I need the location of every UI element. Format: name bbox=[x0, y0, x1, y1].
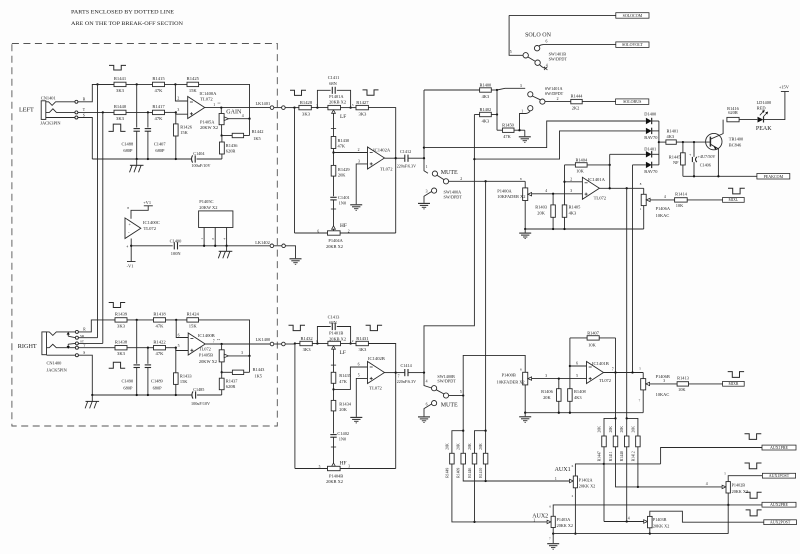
wire row1 R1415 to R1425 bbox=[165, 83, 188, 85]
resistor R1444 bbox=[571, 99, 582, 103]
svg-text:C1414: C1414 bbox=[401, 363, 413, 368]
node AUX2 R1446 bbox=[473, 521, 475, 523]
wire P1406B bottom bbox=[642, 390, 644, 413]
svg-text:CN1401: CN1401 bbox=[41, 96, 56, 101]
svg-text:20KW X2: 20KW X2 bbox=[199, 359, 217, 364]
wire R1427 to EQ right edge bbox=[368, 108, 395, 159]
svg-text:R1430: R1430 bbox=[338, 138, 351, 143]
svg-text:4: 4 bbox=[545, 189, 547, 193]
svg-text:20K: 20K bbox=[537, 211, 545, 216]
svg-text:R: R bbox=[83, 97, 86, 101]
wire mute-B to fader top bbox=[463, 355, 525, 395]
wire L jack S to ground rail bbox=[78, 118, 92, 160]
svg-text:3: 3 bbox=[663, 379, 665, 383]
resistor R1417 bbox=[153, 110, 165, 114]
svg-text:AUX1POST: AUX1POST bbox=[769, 473, 790, 478]
wire mute-A vertical bbox=[423, 90, 425, 158]
wire R pre-fader feed to aux bbox=[462, 396, 464, 431]
svg-text:GAIN: GAIN bbox=[226, 109, 242, 115]
capacitor C1404 polarized bbox=[192, 155, 193, 162]
svg-text:PEAKCOM: PEAKCOM bbox=[764, 174, 784, 179]
op-amp IC1400B bbox=[188, 333, 205, 355]
pot P1404A HF wiper arrow bbox=[332, 226, 336, 229]
resistor R1436 bbox=[221, 136, 223, 143]
svg-text:PEAK: PEAK bbox=[756, 126, 772, 132]
wire pin2 to IC1401A bbox=[565, 181, 583, 183]
flag PEAKCOM bbox=[757, 174, 790, 180]
resistor R1440 bbox=[114, 110, 126, 114]
svg-text:R1407: R1407 bbox=[587, 330, 600, 335]
aux stub row post pair2 bbox=[627, 418, 638, 436]
node pin2 tap bbox=[174, 83, 176, 85]
node pin2 bbox=[332, 151, 334, 153]
svg-text:47K: 47K bbox=[155, 88, 164, 93]
resistor R1439 bbox=[115, 318, 127, 322]
svg-text:P1405A: P1405A bbox=[200, 119, 215, 124]
svg-text:20K: 20K bbox=[620, 426, 624, 433]
resistor R1442 bbox=[222, 135, 233, 137]
svg-text:3K3: 3K3 bbox=[303, 347, 312, 352]
svg-text:20KW X2: 20KW X2 bbox=[199, 205, 217, 210]
op-amp IC1402B bbox=[368, 362, 385, 384]
svg-text:3: 3 bbox=[348, 465, 350, 469]
capacitor C1406 polarized bbox=[693, 142, 695, 157]
node ground row P1403B bbox=[649, 532, 651, 534]
svg-text:6: 6 bbox=[546, 40, 548, 44]
svg-text:20KB X2: 20KB X2 bbox=[329, 100, 346, 105]
svg-text:R1431: R1431 bbox=[356, 336, 369, 341]
pot P1405B bbox=[221, 344, 223, 350]
pot block P1405C bbox=[199, 211, 233, 228]
pot P1404B HF wiper arrow bbox=[332, 463, 336, 466]
svg-text:20KB X2: 20KB X2 bbox=[326, 479, 343, 484]
svg-text:R1444: R1444 bbox=[571, 93, 584, 98]
svg-text:AUX1PRE: AUX1PRE bbox=[770, 445, 789, 450]
svg-text:P1405C: P1405C bbox=[199, 199, 213, 204]
wire C1401 to HF wiper bbox=[333, 200, 335, 226]
pot P1403B bbox=[644, 520, 648, 523]
node rail C1407 bbox=[147, 158, 149, 160]
pulse icon MIXL bbox=[728, 188, 745, 194]
wire AUX1 bus bbox=[463, 464, 570, 481]
wire aux2 wiper row right bbox=[604, 521, 645, 523]
chassis ground under L caps bbox=[136, 159, 138, 165]
node rail fader B bbox=[524, 412, 526, 414]
wire C1400 to LK1402 bbox=[179, 245, 270, 247]
node output / P1405B top bbox=[220, 343, 222, 345]
resistor R1413 bbox=[677, 382, 688, 386]
resistor R1402 bbox=[474, 114, 479, 116]
resistor R1424 feedback bbox=[187, 318, 199, 322]
capacitor C1412 bbox=[396, 157, 405, 159]
svg-text:15K: 15K bbox=[180, 130, 188, 135]
resistor R1409 bbox=[461, 453, 466, 464]
svg-text:1: 1 bbox=[213, 103, 215, 107]
svg-text:SW/DPDT: SW/DPDT bbox=[437, 379, 456, 384]
svg-text:R1434: R1434 bbox=[339, 401, 352, 406]
switch SW1401A bbox=[497, 88, 525, 90]
resistor R1448 bbox=[624, 436, 629, 447]
resistor R1437 bbox=[221, 372, 223, 378]
pot P1405B bottom leg bbox=[221, 362, 223, 372]
svg-text:3: 3 bbox=[358, 159, 360, 163]
node stub post L2 bbox=[626, 417, 628, 419]
node rail fader bbox=[524, 228, 526, 230]
svg-text:4: 4 bbox=[127, 244, 129, 248]
svg-text:8: 8 bbox=[127, 206, 129, 210]
wire IC1402B out bbox=[385, 372, 396, 374]
wire IC1401A to D1401a bbox=[610, 153, 646, 155]
wire SOLOVOLT bbox=[539, 45, 616, 47]
wire L pre to R1410 bbox=[485, 431, 487, 454]
svg-text:P1404B: P1404B bbox=[329, 473, 343, 478]
wire to solo ground bbox=[524, 130, 526, 136]
wire P1401B to R1431 bbox=[341, 343, 357, 345]
svg-text:47K: 47K bbox=[338, 144, 346, 149]
pot P1402A aux1 send bbox=[570, 480, 573, 482]
svg-text:P1400B: P1400B bbox=[502, 373, 516, 378]
node C1407 top bbox=[147, 111, 149, 113]
svg-text:C1488: C1488 bbox=[121, 142, 134, 147]
node ground row P1402A bbox=[574, 532, 576, 534]
resistor R1434 bbox=[331, 400, 336, 411]
wire mute-A common row bbox=[449, 180, 526, 182]
resistor R1447 bbox=[602, 436, 607, 447]
wire SW1400A pin3 to ground bbox=[424, 192, 432, 203]
wire P1403A to ground bbox=[552, 534, 554, 544]
resistor R1416 bbox=[727, 117, 739, 121]
svg-text:MUTE: MUTE bbox=[441, 170, 458, 176]
svg-text:TR1400: TR1400 bbox=[729, 136, 744, 141]
wire pin3 to ground bbox=[356, 164, 367, 204]
pot P1402B bbox=[722, 485, 726, 488]
svg-text:C1407: C1407 bbox=[154, 142, 167, 147]
node EQ-R input bbox=[294, 342, 296, 344]
node C1411 right bbox=[349, 106, 351, 108]
wire R1428 to P1401A bbox=[311, 107, 328, 109]
svg-text:R1439: R1439 bbox=[115, 312, 128, 317]
op-amp IC1401B bbox=[587, 362, 604, 384]
svg-text:R1406: R1406 bbox=[541, 389, 554, 394]
wire R pre to R1409 bbox=[462, 431, 464, 454]
svg-text:10KFADER X2: 10KFADER X2 bbox=[497, 194, 525, 199]
svg-text:R1441: R1441 bbox=[114, 76, 127, 81]
node AUX1PRE R1447 bbox=[603, 463, 605, 465]
svg-text:R1436: R1436 bbox=[226, 143, 239, 148]
svg-text:3K3: 3K3 bbox=[358, 111, 367, 116]
node AUX1 R1410 bbox=[484, 480, 486, 482]
svg-text:C1404: C1404 bbox=[193, 151, 205, 156]
svg-text:1K5: 1K5 bbox=[253, 136, 261, 141]
wire post feeds bbox=[615, 418, 617, 436]
svg-text:R1448: R1448 bbox=[620, 451, 624, 461]
pulse icon right of P1401A bbox=[363, 90, 379, 95]
pulse icon AUX1PRE bbox=[745, 434, 762, 440]
wire EQ main row bbox=[295, 107, 299, 109]
svg-text:20KB X2: 20KB X2 bbox=[326, 244, 343, 249]
svg-text:20K: 20K bbox=[445, 443, 449, 450]
wire R1424 to feedback corner bbox=[199, 320, 250, 356]
svg-text:R1413: R1413 bbox=[677, 376, 690, 381]
svg-text:IC1401B: IC1401B bbox=[592, 361, 609, 366]
svg-text:5: 5 bbox=[460, 390, 462, 394]
wire row R1439-R1418 bbox=[127, 319, 154, 321]
flag SOLOBUS bbox=[616, 99, 649, 105]
node L pre-fader tap bbox=[484, 180, 486, 182]
svg-text:P1403B: P1403B bbox=[653, 517, 667, 522]
wire fader-A bottom bbox=[524, 201, 526, 230]
svg-text:R1405: R1405 bbox=[569, 205, 582, 210]
svg-text:CN1400: CN1400 bbox=[47, 361, 63, 366]
flag SOLOVOLT bbox=[616, 42, 649, 48]
pot P1404B bbox=[328, 466, 341, 470]
wire AUX2 bus bbox=[452, 464, 548, 522]
node rail C1490 bbox=[136, 394, 138, 396]
wire R1410 bottom bbox=[485, 464, 487, 481]
svg-text:680P: 680P bbox=[155, 148, 165, 153]
wire pin6 to IC1402B bbox=[334, 367, 368, 389]
svg-text:P1402B: P1402B bbox=[732, 483, 746, 488]
wire +V1 to IC1400C pin8 bbox=[131, 206, 148, 219]
pot P1401B LF bbox=[328, 341, 341, 345]
svg-text:47K: 47K bbox=[503, 134, 511, 139]
svg-text:P1401B: P1401B bbox=[329, 331, 343, 336]
svg-text:4: 4 bbox=[664, 195, 666, 199]
pulse icon AUX2PRE bbox=[746, 492, 762, 498]
svg-text:3: 3 bbox=[570, 189, 572, 193]
svg-text:IC1401A: IC1401A bbox=[588, 177, 606, 182]
svg-text:R1418: R1418 bbox=[153, 312, 166, 317]
wire EQ-R left edge bbox=[294, 344, 296, 469]
svg-text:P1406B: P1406B bbox=[656, 374, 670, 379]
svg-text:20KK X2: 20KK X2 bbox=[653, 523, 669, 528]
svg-text:D1401: D1401 bbox=[644, 147, 656, 152]
pulse icon right of P1401B bbox=[366, 325, 383, 330]
wire R1407 to output bbox=[615, 338, 617, 373]
supply -V1 bbox=[127, 261, 136, 263]
svg-text:D1400: D1400 bbox=[644, 111, 657, 116]
wire pin3 bbox=[176, 112, 188, 114]
wire R jack S to ground rail bbox=[78, 355, 92, 395]
svg-text:LD1400: LD1400 bbox=[757, 100, 772, 105]
svg-text:R1442: R1442 bbox=[252, 129, 264, 134]
node rail C1488 bbox=[136, 158, 138, 160]
svg-text:4: 4 bbox=[242, 114, 244, 118]
svg-text:3K3: 3K3 bbox=[117, 351, 126, 356]
svg-text:2: 2 bbox=[358, 148, 360, 152]
node R feed to peak bbox=[473, 158, 475, 160]
P1405C pin 1 bbox=[203, 228, 205, 246]
svg-text:3K3: 3K3 bbox=[116, 116, 125, 121]
node cathode bus bbox=[658, 141, 660, 143]
svg-text:TL072: TL072 bbox=[200, 97, 213, 102]
svg-text:620R: 620R bbox=[226, 384, 236, 389]
svg-text:R1400: R1400 bbox=[480, 83, 493, 88]
resistor R1401 bbox=[659, 141, 666, 143]
dotted break-off section border bbox=[12, 44, 277, 427]
capacitor C1490 bbox=[136, 320, 138, 364]
resistor R1430 bbox=[331, 137, 336, 149]
pulse icon AUX1POST bbox=[745, 463, 762, 469]
svg-text:R1409: R1409 bbox=[457, 468, 461, 478]
wire row2 R1417 to op-amp pin3 bbox=[165, 111, 176, 113]
resistor R1405 bbox=[562, 205, 567, 217]
svg-text:-V1: -V1 bbox=[127, 264, 134, 269]
ground fader B bbox=[524, 413, 526, 417]
svg-text:4K3: 4K3 bbox=[482, 118, 490, 123]
svg-text:R1447: R1447 bbox=[598, 451, 602, 461]
svg-text:100N: 100N bbox=[171, 251, 182, 256]
svg-text:680P: 680P bbox=[123, 385, 133, 390]
switch SW1401B bbox=[509, 15, 523, 55]
svg-text:3: 3 bbox=[426, 190, 428, 194]
svg-text:LK1402: LK1402 bbox=[255, 240, 270, 245]
flag MIXL bbox=[723, 198, 745, 203]
svg-text:4K3: 4K3 bbox=[569, 211, 577, 216]
wire IC1402A out bbox=[385, 157, 396, 159]
flag MIXR bbox=[723, 381, 745, 386]
node pin5/R1433 bbox=[175, 347, 177, 349]
svg-text:7: 7 bbox=[213, 339, 215, 343]
node pin2 bbox=[563, 181, 565, 183]
ground fader A bbox=[524, 229, 526, 233]
node gain wiper / feedback bbox=[248, 118, 250, 120]
svg-text:R1450: R1450 bbox=[502, 123, 515, 128]
resistor R1407 bbox=[570, 337, 587, 339]
svg-text:SOLOVOLT: SOLOVOLT bbox=[622, 42, 643, 47]
node C1413 left bbox=[316, 342, 318, 344]
svg-text:10KFADER X2: 10KFADER X2 bbox=[497, 379, 525, 384]
svg-text:620R: 620R bbox=[226, 148, 236, 153]
svg-text:P1400A: P1400A bbox=[497, 188, 512, 193]
wire R1435 to node bbox=[333, 383, 335, 400]
svg-text:4: 4 bbox=[426, 379, 428, 383]
jack CN1401 bbox=[41, 101, 46, 120]
svg-text:SW/DPDT: SW/DPDT bbox=[545, 91, 564, 96]
resistor R1446 bbox=[472, 453, 477, 464]
svg-text:220nF/6.3V: 220nF/6.3V bbox=[397, 379, 416, 384]
resistor R1441 bbox=[92, 83, 114, 85]
switch SW1400B mute bbox=[432, 386, 437, 391]
normalling contact arrow up bbox=[67, 333, 69, 336]
node rail R1405 bbox=[563, 228, 565, 230]
svg-text:3K3: 3K3 bbox=[358, 347, 367, 352]
LED LD1400 bbox=[758, 117, 764, 123]
svg-text:LF: LF bbox=[340, 350, 346, 356]
svg-text:R1435: R1435 bbox=[339, 373, 352, 378]
resistor R1450 bbox=[497, 129, 503, 131]
svg-text:**: ** bbox=[217, 338, 221, 342]
wire pin5 to ground bbox=[356, 378, 367, 417]
resistor R1449 bbox=[450, 453, 455, 464]
svg-text:BC846: BC846 bbox=[729, 143, 742, 148]
chassis ground under R jack bbox=[91, 395, 93, 401]
node EQ input bbox=[293, 106, 295, 108]
node AUX2PRE P1402B bbox=[727, 504, 729, 506]
node wiper R1403 bbox=[552, 193, 554, 195]
wire solo sum vertical bbox=[496, 90, 498, 130]
resistor R1426 bbox=[175, 112, 177, 124]
wire row2 R1438-R1422 bbox=[127, 347, 154, 349]
op-amp IC1400C bbox=[125, 218, 141, 239]
op-amp IC1401A bbox=[582, 177, 599, 199]
svg-text:5: 5 bbox=[178, 344, 180, 348]
wire SW1401A common to R1444 bbox=[545, 101, 571, 103]
wire LED to +15V bbox=[764, 92, 785, 120]
svg-text:R1403: R1403 bbox=[535, 205, 548, 210]
wire SOLOCOM bbox=[509, 14, 616, 16]
svg-text:R1401: R1401 bbox=[667, 129, 679, 134]
svg-text:C1485: C1485 bbox=[193, 387, 204, 392]
wire R1446 bottom bbox=[474, 464, 476, 522]
svg-text:3: 3 bbox=[545, 374, 547, 378]
svg-text:RIGHT: RIGHT bbox=[18, 343, 37, 350]
capacitor C1401 bbox=[333, 176, 335, 196]
node stub post R bbox=[614, 417, 616, 419]
node rail S-arm bbox=[91, 394, 93, 396]
svg-text:3: 3 bbox=[352, 103, 354, 107]
svg-text:4K3: 4K3 bbox=[574, 395, 582, 400]
node P1405B bottom bbox=[221, 371, 223, 373]
svg-text:20K: 20K bbox=[609, 426, 613, 433]
node C1411 left bbox=[316, 106, 318, 108]
svg-text:P1406A: P1406A bbox=[656, 206, 671, 211]
supply +15V bbox=[781, 91, 789, 93]
node out/R1404 bbox=[609, 187, 611, 189]
svg-text:S: S bbox=[83, 351, 85, 355]
peak ground rail bbox=[683, 175, 757, 177]
wire R1411 bottom to P1402B bbox=[616, 447, 722, 487]
svg-text:2: 2 bbox=[352, 339, 354, 343]
wire IC1400B output row to LK1400 bbox=[205, 343, 270, 345]
wire R1431 to EQ-R right edge bbox=[368, 344, 395, 373]
svg-text:6: 6 bbox=[576, 362, 578, 366]
svg-text:10KAC: 10KAC bbox=[656, 213, 670, 218]
vertical D1401b feed bbox=[632, 165, 634, 373]
aux stub row left pair bbox=[452, 431, 463, 454]
wire SW1400B pin6 to ground bbox=[424, 404, 432, 416]
wire normalling vertical to right channel ST bbox=[102, 112, 104, 343]
svg-text:4K3: 4K3 bbox=[482, 94, 490, 99]
wire P1402A top to AUX1PRE row bbox=[575, 464, 660, 476]
wire mute-B to switch bbox=[424, 373, 432, 388]
svg-text:20K: 20K bbox=[338, 172, 346, 177]
svg-text:100uF/10V: 100uF/10V bbox=[191, 163, 210, 168]
ground IC1402A pin3 bbox=[350, 204, 362, 206]
wire IC1400C pin4 to -V1 bbox=[130, 239, 132, 262]
resistor R1431 bbox=[356, 341, 368, 345]
svg-text:AUX1: AUX1 bbox=[555, 467, 571, 473]
svg-text:C1489: C1489 bbox=[151, 379, 164, 384]
svg-text:R1417: R1417 bbox=[152, 104, 165, 109]
wire IC1401A out to aux resistors bbox=[626, 188, 628, 418]
svg-text:3K3: 3K3 bbox=[117, 323, 126, 328]
ground SW1400A bbox=[418, 202, 430, 204]
wire EQ-R main row bbox=[295, 343, 300, 345]
svg-text:C1400: C1400 bbox=[170, 238, 183, 243]
svg-text:TL072: TL072 bbox=[369, 385, 382, 390]
svg-text:R1411: R1411 bbox=[609, 451, 613, 461]
svg-text:4: 4 bbox=[706, 482, 708, 486]
node mute-A input bbox=[423, 157, 425, 159]
svg-text:1: 1 bbox=[533, 518, 535, 522]
P1405C pin 2 bbox=[214, 228, 216, 246]
resistor R1432 bbox=[300, 341, 312, 345]
svg-text:LK1401: LK1401 bbox=[256, 101, 271, 106]
svg-text:R1412: R1412 bbox=[631, 451, 635, 461]
svg-text:SOLOBUS: SOLOBUS bbox=[623, 99, 641, 104]
svg-text:LK1400: LK1400 bbox=[256, 337, 271, 342]
